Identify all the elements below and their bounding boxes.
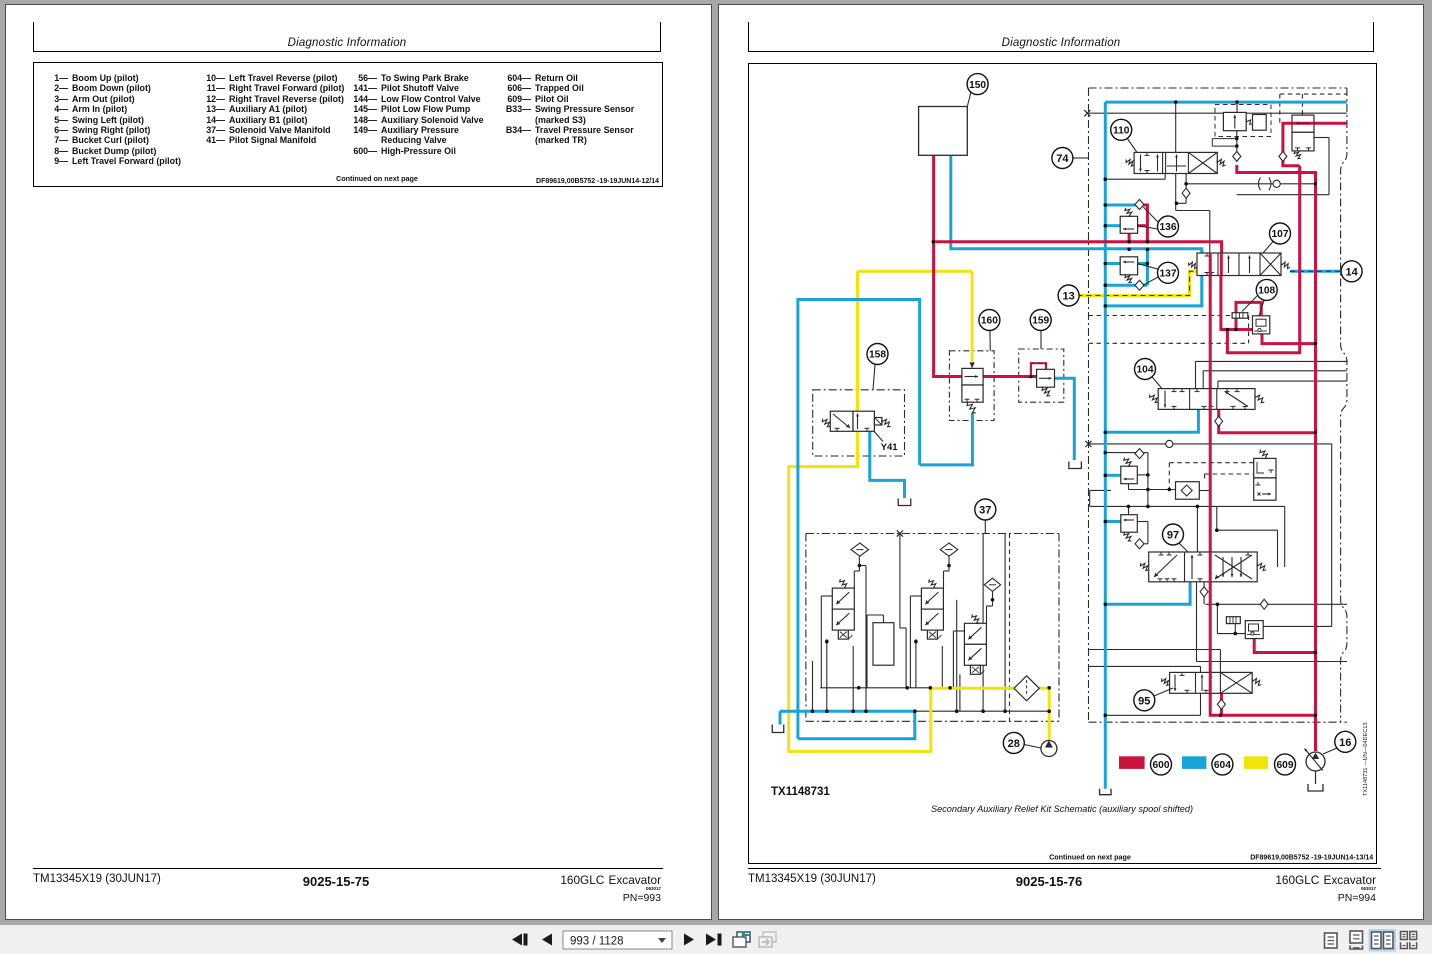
svg-text:37: 37 [979, 504, 991, 516]
svg-text:DF89619,00B5752 -19-19JUN14-13: DF89619,00B5752 -19-19JUN14-13/14 [1250, 855, 1373, 862]
svg-text:Secondary Auxiliary Relief Kit: Secondary Auxiliary Relief Kit Schematic… [931, 804, 1193, 814]
svg-text:604: 604 [1214, 760, 1231, 771]
svg-text:158: 158 [869, 350, 886, 361]
svg-text:137: 137 [1160, 268, 1177, 279]
svg-text:Y41: Y41 [881, 442, 899, 453]
svg-text:159: 159 [1032, 316, 1049, 327]
svg-text:16: 16 [1339, 737, 1351, 749]
svg-text:108: 108 [1258, 286, 1275, 297]
svg-text:TX1148731: TX1148731 [771, 786, 830, 798]
svg-text:609: 609 [1277, 760, 1294, 771]
svg-text:Continued on next page: Continued on next page [1049, 853, 1131, 862]
svg-text:136: 136 [1160, 222, 1177, 233]
svg-text:104: 104 [1137, 365, 1154, 376]
svg-text:150: 150 [969, 80, 986, 91]
svg-text:97: 97 [1167, 529, 1179, 541]
svg-text:TX1148731 —UN—04DEC13: TX1148731 —UN—04DEC13 [1363, 722, 1369, 796]
svg-text:600: 600 [1153, 760, 1170, 771]
svg-text:95: 95 [1138, 695, 1150, 707]
svg-text:14: 14 [1345, 266, 1358, 278]
svg-text:993 / 1128: 993 / 1128 [570, 936, 624, 948]
svg-text:74: 74 [1056, 153, 1069, 165]
svg-text:28: 28 [1008, 738, 1020, 750]
svg-text:160: 160 [981, 316, 998, 327]
svg-text:110: 110 [1113, 125, 1130, 136]
svg-text:107: 107 [1272, 229, 1289, 240]
svg-text:13: 13 [1062, 290, 1074, 302]
